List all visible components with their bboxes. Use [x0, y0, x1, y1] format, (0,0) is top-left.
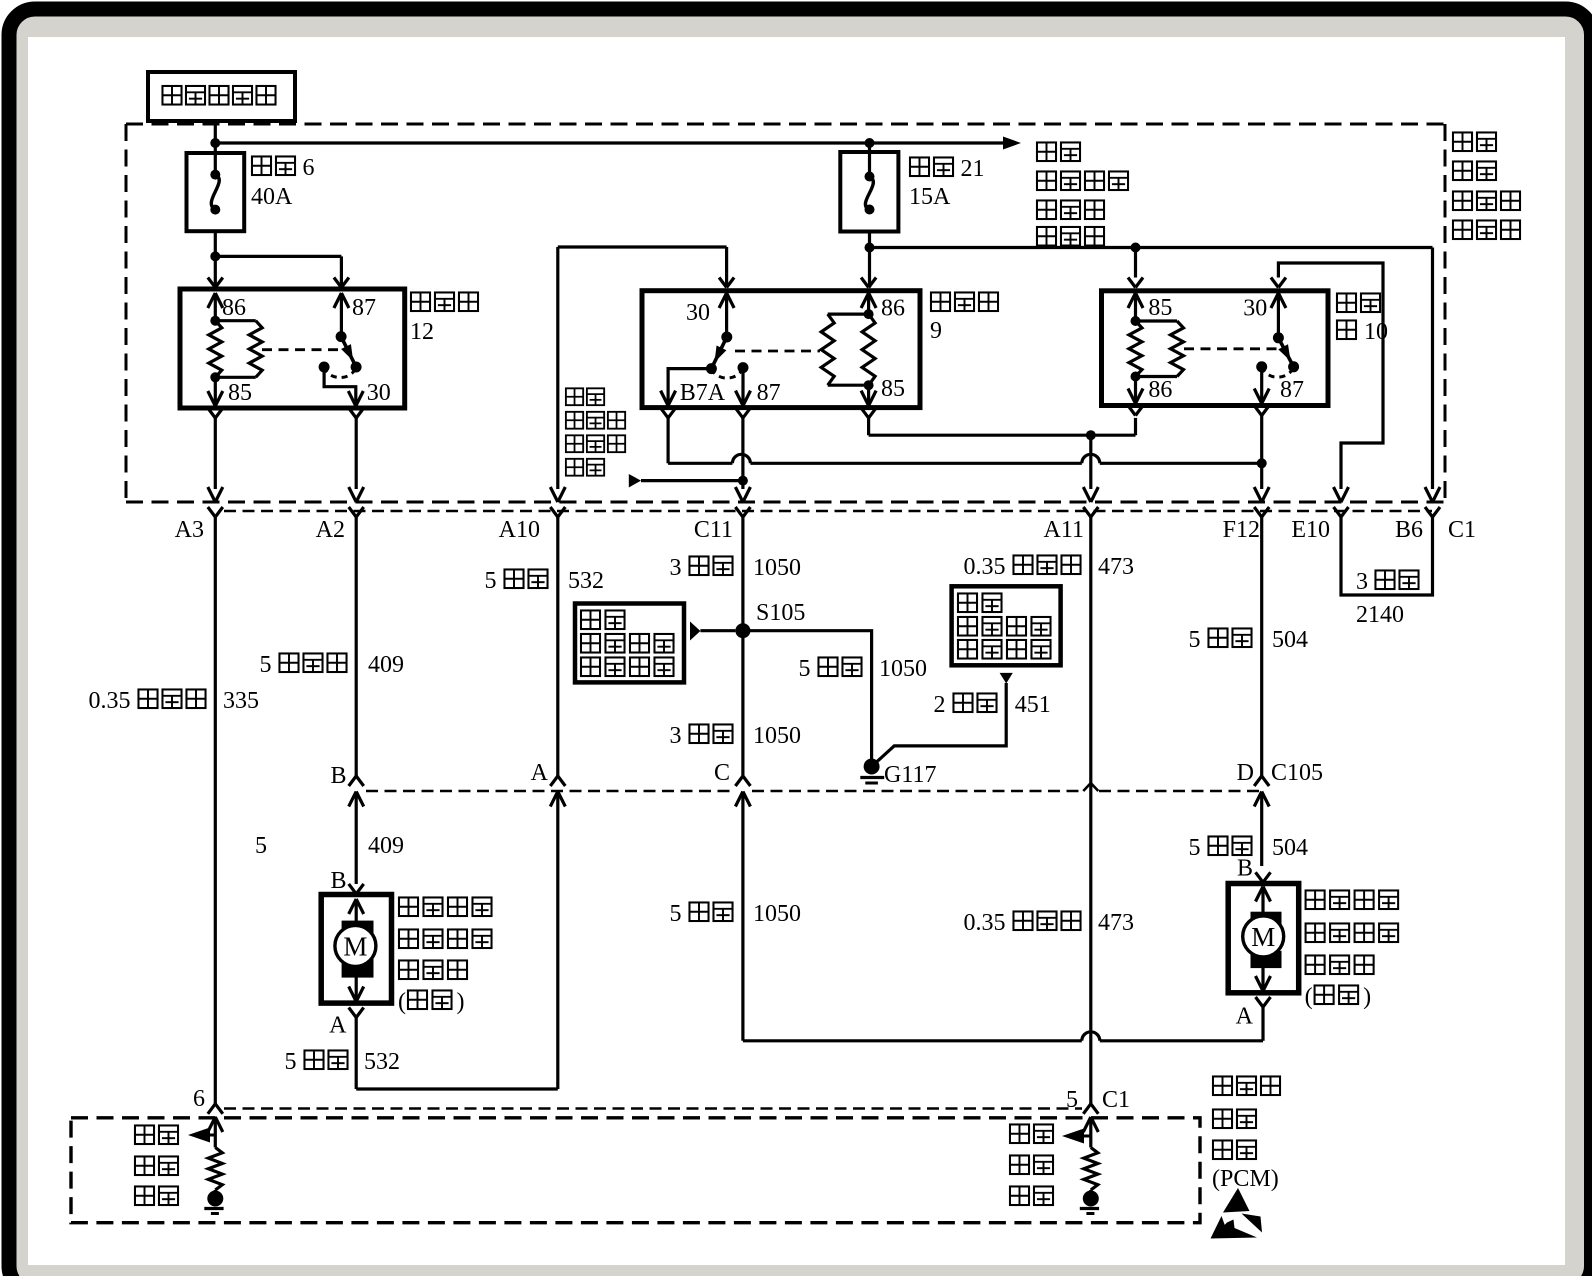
svg-text:C: C	[714, 760, 730, 786]
svg-text:): )	[457, 989, 465, 1015]
svg-text:3: 3	[670, 555, 682, 581]
svg-text:30: 30	[1243, 296, 1267, 322]
svg-text:6: 6	[193, 1086, 205, 1112]
svg-text:87: 87	[352, 295, 376, 321]
svg-text:1050: 1050	[753, 555, 801, 581]
svg-text:86: 86	[222, 295, 246, 321]
svg-text:1050: 1050	[753, 901, 801, 927]
svg-text:504: 504	[1272, 627, 1308, 653]
svg-text:504: 504	[1272, 835, 1308, 861]
svg-text:0.35: 0.35	[964, 554, 1006, 580]
svg-text:532: 532	[364, 1049, 400, 1075]
svg-text:87: 87	[757, 380, 781, 406]
svg-text:5: 5	[255, 833, 267, 859]
svg-text:12: 12	[410, 319, 434, 345]
svg-text:B6: B6	[1395, 517, 1423, 543]
svg-text:85: 85	[881, 376, 905, 402]
svg-text:5: 5	[1066, 1087, 1078, 1113]
svg-text:10: 10	[1364, 319, 1388, 345]
svg-text:5: 5	[670, 901, 682, 927]
svg-text:86: 86	[881, 296, 905, 322]
svg-text:B: B	[330, 868, 346, 894]
svg-text:21: 21	[961, 156, 985, 182]
svg-text:C11: C11	[694, 517, 733, 543]
svg-text:D: D	[1237, 760, 1254, 786]
svg-text:0.35: 0.35	[964, 910, 1006, 936]
svg-text:532: 532	[568, 568, 604, 594]
svg-text:85: 85	[1148, 295, 1172, 321]
svg-text:C1: C1	[1102, 1087, 1130, 1113]
svg-text:5: 5	[799, 656, 811, 682]
svg-text:1050: 1050	[879, 656, 927, 682]
svg-text:A3: A3	[175, 517, 204, 543]
svg-text:5: 5	[1189, 835, 1201, 861]
svg-text:3: 3	[670, 723, 682, 749]
svg-text:409: 409	[368, 652, 404, 678]
svg-text:409: 409	[368, 833, 404, 859]
svg-text:B7A: B7A	[680, 380, 726, 406]
svg-text:2140: 2140	[1356, 602, 1404, 628]
svg-text:(PCM): (PCM)	[1212, 1166, 1279, 1192]
svg-text:B: B	[1237, 855, 1253, 881]
svg-text:473: 473	[1098, 554, 1134, 580]
svg-text:85: 85	[228, 380, 252, 406]
svg-text:(: (	[1305, 984, 1313, 1010]
svg-text:M: M	[343, 932, 367, 962]
svg-text:C1: C1	[1448, 517, 1476, 543]
svg-text:A: A	[329, 1013, 347, 1039]
svg-text:(: (	[398, 989, 406, 1015]
svg-text:451: 451	[1015, 692, 1051, 718]
svg-text:6: 6	[303, 155, 315, 181]
svg-text:M: M	[1251, 922, 1275, 952]
svg-text:30: 30	[686, 300, 710, 326]
svg-text:F12: F12	[1223, 517, 1260, 543]
svg-text:5: 5	[485, 568, 497, 594]
svg-text:87: 87	[1280, 377, 1304, 403]
svg-text:86: 86	[1148, 377, 1172, 403]
svg-text:B: B	[330, 763, 346, 789]
svg-text:A2: A2	[316, 517, 345, 543]
svg-text:30: 30	[367, 380, 391, 406]
svg-text:0.35: 0.35	[89, 688, 131, 714]
svg-text:335: 335	[223, 688, 259, 714]
svg-text:A11: A11	[1044, 517, 1084, 543]
svg-text:A: A	[1236, 1003, 1254, 1029]
svg-text:A10: A10	[499, 517, 540, 543]
svg-text:5: 5	[260, 652, 272, 678]
svg-text:5: 5	[1189, 627, 1201, 653]
svg-text:): )	[1363, 984, 1371, 1010]
svg-text:1050: 1050	[753, 723, 801, 749]
svg-text:15A: 15A	[909, 184, 951, 210]
svg-text:5: 5	[285, 1049, 297, 1075]
svg-text:A: A	[531, 760, 549, 786]
svg-text:473: 473	[1098, 910, 1134, 936]
svg-text:E10: E10	[1291, 517, 1330, 543]
svg-text:9: 9	[930, 318, 942, 344]
svg-text:S105: S105	[756, 600, 805, 626]
svg-text:C105: C105	[1271, 760, 1323, 786]
svg-text:3: 3	[1356, 569, 1368, 595]
svg-text:2: 2	[934, 692, 946, 718]
svg-text:G117: G117	[884, 762, 936, 788]
svg-text:40A: 40A	[251, 184, 293, 210]
